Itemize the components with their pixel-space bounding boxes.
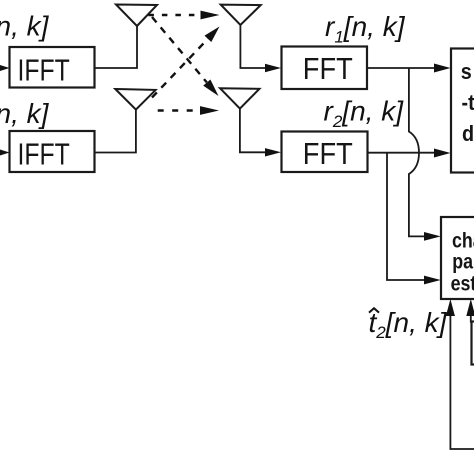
svg-text:par: par: [452, 250, 474, 274]
svg-text:-ti: -ti: [462, 91, 474, 115]
svg-text:est: est: [451, 272, 474, 296]
svg-text:n, k]: n, k]: [0, 11, 50, 42]
svg-text:FFT: FFT: [303, 137, 353, 171]
svg-text:IFFT: IFFT: [17, 53, 69, 87]
svg-text:s: s: [461, 60, 472, 84]
svg-text:n, k]: n, k]: [0, 98, 50, 129]
svg-text:cha: cha: [452, 229, 474, 253]
svg-text:IFFT: IFFT: [17, 137, 69, 171]
svg-text:d: d: [462, 122, 474, 146]
svg-text:FFT: FFT: [303, 52, 353, 86]
